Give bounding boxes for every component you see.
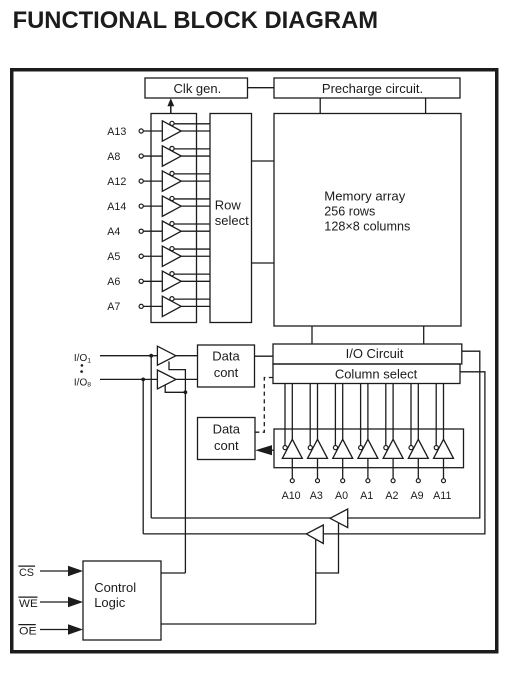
svg-text:A7: A7 bbox=[107, 301, 120, 313]
svg-text:Memory array: Memory array bbox=[324, 189, 405, 204]
svg-text:A2: A2 bbox=[385, 490, 398, 502]
svg-text:128×8 columns: 128×8 columns bbox=[324, 218, 410, 233]
svg-text:A6: A6 bbox=[107, 276, 120, 288]
svg-text:Logic: Logic bbox=[94, 595, 126, 610]
svg-text:A13: A13 bbox=[107, 126, 126, 138]
svg-text:FUNCTIONAL BLOCK DIAGRAM: FUNCTIONAL BLOCK DIAGRAM bbox=[13, 7, 379, 34]
svg-text:A5: A5 bbox=[107, 251, 120, 263]
svg-text:A3: A3 bbox=[310, 490, 323, 502]
svg-text:A8: A8 bbox=[107, 151, 120, 163]
svg-text:Data: Data bbox=[213, 422, 241, 437]
svg-text:CS: CS bbox=[19, 567, 34, 579]
svg-text:Row: Row bbox=[215, 197, 242, 212]
svg-text:OE: OE bbox=[19, 625, 37, 637]
svg-text:WE: WE bbox=[19, 598, 38, 610]
svg-text:Clk gen.: Clk gen. bbox=[174, 81, 222, 96]
svg-text:Data: Data bbox=[212, 348, 240, 363]
svg-text:Control: Control bbox=[94, 580, 136, 595]
svg-text:A0: A0 bbox=[335, 490, 348, 502]
svg-text:cont: cont bbox=[214, 438, 239, 453]
svg-text:A12: A12 bbox=[107, 176, 126, 188]
svg-text:select: select bbox=[215, 213, 249, 228]
svg-text:256 rows: 256 rows bbox=[324, 204, 375, 219]
svg-text:cont: cont bbox=[214, 365, 239, 380]
svg-text:A4: A4 bbox=[107, 226, 120, 238]
svg-text:I/O Circuit: I/O Circuit bbox=[346, 346, 404, 361]
svg-text:A1: A1 bbox=[360, 490, 373, 502]
svg-text:A14: A14 bbox=[107, 201, 126, 213]
svg-text:A9: A9 bbox=[411, 490, 424, 502]
svg-text:A10: A10 bbox=[282, 490, 301, 502]
svg-text:Column select: Column select bbox=[335, 367, 418, 382]
svg-text:A11: A11 bbox=[433, 490, 451, 502]
svg-text:Precharge circuit.: Precharge circuit. bbox=[322, 81, 423, 96]
